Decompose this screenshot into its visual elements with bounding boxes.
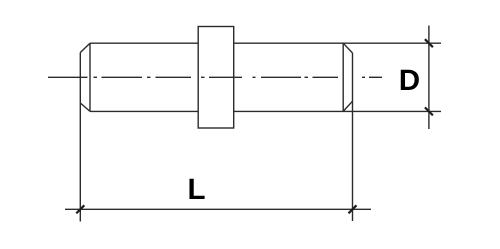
pin body left edge	[89, 43, 91, 111]
right chamfer bottom slant	[344, 101, 353, 111]
pin body bottom edge (right of collar) + D bottom extension line	[234, 110, 441, 112]
pin body bottom edge (left of collar)	[90, 110, 198, 112]
centerline dash-dot	[48, 76, 382, 78]
L left oblique tick	[76, 205, 84, 213]
right chamfer end face + L right extension line	[352, 53, 354, 221]
left chamfer bottom slant	[80, 103, 90, 111]
D top oblique tick	[425, 39, 433, 47]
pin body right edge	[342, 43, 344, 111]
label L	[189, 179, 204, 199]
collar rectangle	[198, 27, 234, 129]
L dimension line	[65, 208, 371, 210]
D bottom oblique tick	[425, 107, 433, 115]
right chamfer top slant	[343, 43, 352, 53]
left chamfer top slant	[80, 43, 90, 52]
L right oblique tick	[349, 205, 357, 213]
left chamfer end face + L left extension line	[79, 53, 81, 222]
D dimension line	[428, 26, 430, 130]
pin body top edge (right of collar) + D top extension line	[234, 42, 441, 44]
pin body top edge (left of collar)	[90, 42, 198, 44]
label D	[401, 70, 419, 90]
